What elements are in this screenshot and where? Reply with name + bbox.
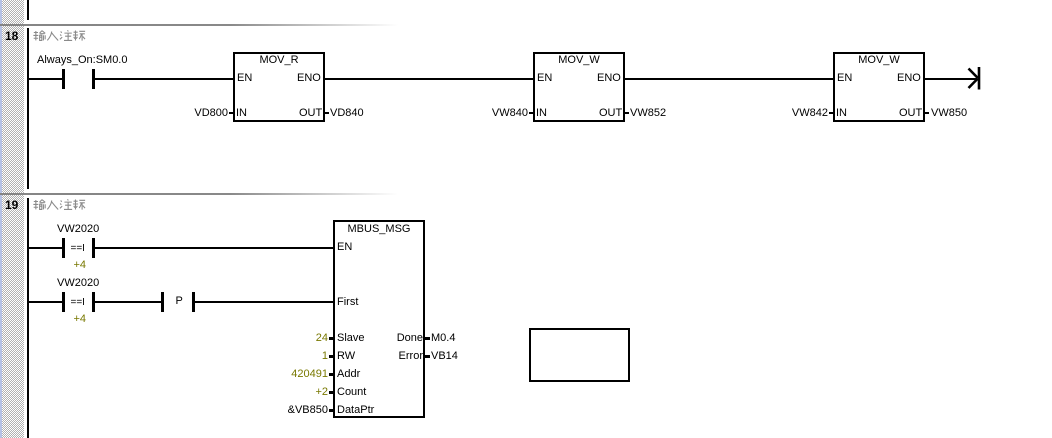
rung1 label VW2020 — [57, 224, 99, 235]
MBUS_MSG pin Slave — [337, 333, 365, 344]
P contact bar1 — [161, 292, 164, 312]
rung2 constant +4 — [74, 314, 87, 325]
MOV_W2 pin IN — [836, 108, 847, 119]
rung2 wire contact to P contact — [95, 301, 161, 303]
rung1 compare contact bar2 — [92, 238, 95, 258]
MOV_R pin EN — [237, 73, 252, 84]
MBUS_MSG pin DataPtr — [337, 405, 374, 416]
DataPtr tick — [329, 409, 333, 412]
box MBUS_MSG — [333, 220, 425, 418]
network 18 comment 输入注释 — [33, 30, 87, 43]
MOV_W1 pin ENO — [597, 73, 621, 84]
rail network 17 tail — [27, 0, 30, 20]
wire contact to MOV_R EN — [95, 78, 233, 80]
wire MOV_R ENO to MOV_W1 EN — [325, 78, 533, 80]
rung1 constant +4 — [74, 260, 87, 271]
rung1 compare contact bar1 — [62, 238, 65, 258]
MBUS_MSG pin Done — [397, 333, 423, 344]
continuation arrow — [960, 60, 988, 96]
box MOV_W 1 — [533, 52, 625, 122]
rung2 wire P contact to MBUS_MSG First — [195, 301, 333, 303]
MOV_W2 title — [833, 55, 925, 66]
wire rail to contact — [29, 78, 62, 80]
operand VW850 — [931, 108, 967, 119]
MOV_W2 OUT tick — [925, 112, 929, 115]
empty selection box — [529, 328, 630, 382]
MBUS_MSG pin Addr — [337, 369, 360, 380]
MBUS_MSG pin First — [337, 297, 358, 308]
network number 18 — [5, 31, 18, 42]
MOV_W1 pin OUT — [599, 108, 622, 119]
MBUS_MSG pin RW — [337, 351, 355, 362]
operand VW852 — [630, 108, 666, 119]
MOV_R OUT tick — [325, 112, 329, 115]
MOV_W1 pin EN — [537, 73, 552, 84]
MOV_W1 IN tick — [529, 112, 533, 115]
contact Always_On:SM0.0 bar2 — [92, 69, 95, 89]
MOV_W2 pin EN — [837, 73, 852, 84]
MOV_W2 pin OUT — [899, 108, 922, 119]
rung2 label VW2020 — [57, 278, 99, 289]
constant 420491 — [291, 369, 328, 380]
operand VW842 — [792, 108, 828, 119]
constant 1 — [322, 351, 328, 362]
rung2 compare contact bar2 — [92, 292, 95, 312]
box MOV_R — [233, 52, 325, 122]
network 19 comment 输入注释 — [33, 199, 87, 212]
rail network 18 — [27, 28, 30, 189]
RW tick — [329, 355, 333, 358]
MOV_W1 pin IN — [536, 108, 547, 119]
svg defs: comment glyphs 输入注释 — [0, 0, 1, 1]
Addr tick — [329, 373, 333, 376]
MOV_R IN tick — [229, 112, 233, 115]
rung1 wire contact to MBUS_MSG EN — [95, 247, 333, 249]
rung1 compare text ==I — [71, 244, 85, 254]
network number 19 — [5, 200, 18, 211]
contact label Always_On:SM0.0 — [37, 55, 127, 66]
wire MOV_W1 ENO to MOV_W2 EN — [625, 78, 833, 80]
Slave tick — [329, 337, 333, 340]
constant +2 — [315, 387, 328, 398]
MOV_R pin ENO — [297, 73, 321, 84]
separator network 19 — [0, 193, 430, 195]
wire MOV_W2 ENO to arrow — [925, 78, 977, 80]
MOV_R pin IN — [236, 108, 247, 119]
Error tick — [425, 355, 430, 358]
operand &VB850 — [288, 405, 328, 416]
contact Always_On:SM0.0 bar1 — [62, 69, 65, 89]
MOV_W1 title — [533, 55, 625, 66]
rung2 wire rail to compare contact — [29, 301, 62, 303]
rung2 compare text ==I — [71, 298, 85, 308]
MBUS_MSG pin Count — [337, 387, 366, 398]
box MOV_W 2 — [833, 52, 925, 122]
MOV_R pin OUT — [299, 108, 322, 119]
rung1 wire rail to compare contact — [29, 247, 62, 249]
MBUS_MSG title — [333, 224, 425, 235]
MOV_W1 OUT tick — [625, 112, 629, 115]
rung2 compare contact bar1 — [62, 292, 65, 312]
constant 24 — [316, 333, 328, 344]
MOV_W2 pin ENO — [897, 73, 921, 84]
Done tick — [425, 337, 430, 340]
MOV_R title — [233, 55, 325, 66]
P contact letter — [176, 296, 183, 307]
operand VB14 — [431, 351, 458, 362]
operand VW840 — [492, 108, 528, 119]
separator network 18 — [0, 24, 430, 26]
operand M0.4 — [431, 333, 455, 344]
gutter dither column — [2, 0, 24, 438]
rail network 19 — [27, 198, 30, 438]
P contact bar2 — [192, 292, 195, 312]
MBUS_MSG pin Error — [399, 351, 423, 362]
operand VD800 — [194, 108, 228, 119]
Count tick — [329, 391, 333, 394]
left window edge (blue) — [0, 0, 2, 438]
MOV_W2 IN tick — [829, 112, 833, 115]
operand VD840 — [330, 108, 364, 119]
MBUS_MSG pin EN — [337, 242, 352, 253]
